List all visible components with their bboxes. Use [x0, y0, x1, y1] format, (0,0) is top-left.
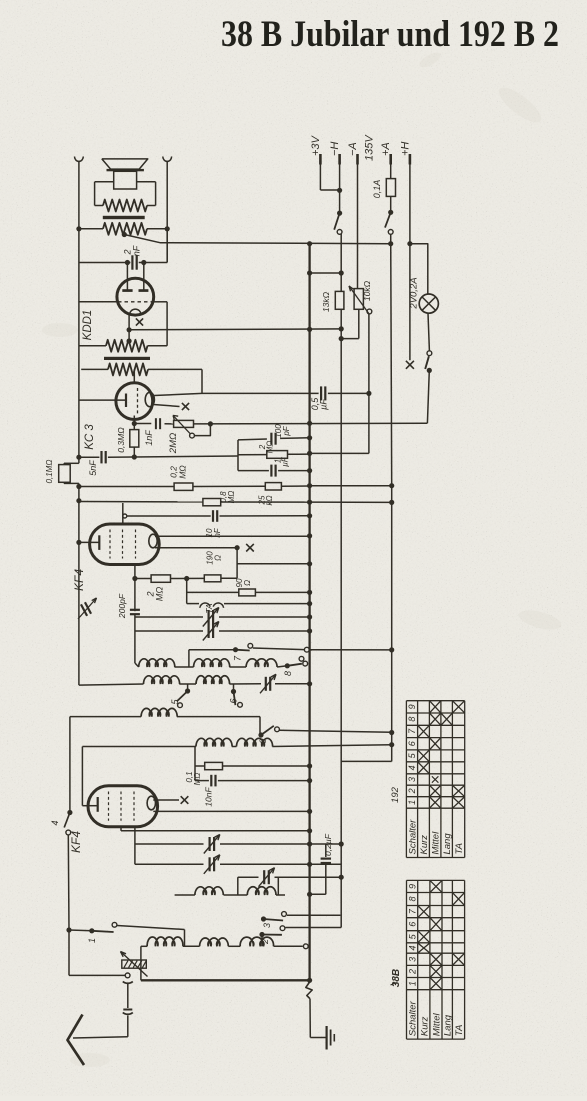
svg-text:Ω: Ω: [214, 555, 223, 561]
svg-text:8: 8: [283, 671, 293, 676]
svg-text:nF: nF: [132, 245, 142, 256]
svg-text:0,2µF: 0,2µF: [323, 833, 333, 856]
svg-text:9: 9: [407, 704, 417, 709]
svg-text:+3V: +3V: [310, 134, 322, 156]
svg-text:8: 8: [407, 717, 417, 722]
svg-text:MΩ: MΩ: [227, 491, 236, 504]
svg-text:MΩ: MΩ: [266, 441, 275, 454]
svg-text:Mittel: Mittel: [431, 1013, 442, 1037]
svg-text:4: 4: [407, 945, 417, 950]
svg-text:kΩ: kΩ: [265, 495, 274, 505]
svg-text:1nF: 1nF: [144, 430, 154, 446]
svg-text:−H: −H: [329, 142, 341, 156]
svg-text:Ω: Ω: [243, 580, 252, 586]
svg-text:13kΩ: 13kΩ: [321, 291, 331, 312]
svg-text:Lang: Lang: [443, 1014, 454, 1036]
svg-text:pF: pF: [282, 425, 291, 436]
svg-text:135V: 135V: [364, 134, 376, 161]
svg-text:10kΩ: 10kΩ: [362, 280, 372, 301]
svg-text:6: 6: [229, 698, 239, 703]
svg-text:2V0,2A: 2V0,2A: [409, 277, 420, 309]
svg-text:8: 8: [407, 896, 417, 901]
svg-text:0,1MΩ: 0,1MΩ: [45, 460, 54, 484]
svg-text:TA: TA: [454, 843, 465, 854]
svg-text:Schalter: Schalter: [408, 819, 419, 855]
svg-text:2: 2: [407, 969, 417, 975]
svg-text:Kurz: Kurz: [419, 835, 430, 855]
svg-text:MΩ: MΩ: [193, 773, 202, 786]
svg-text:10nF: 10nF: [204, 787, 214, 807]
svg-text:KDD1: KDD1: [82, 310, 94, 341]
svg-text:200pF: 200pF: [117, 593, 127, 619]
svg-text:3: 3: [262, 923, 272, 928]
svg-text:Schalter: Schalter: [408, 1000, 419, 1036]
svg-text:9: 9: [407, 884, 417, 889]
svg-text:0,1A: 0,1A: [372, 180, 382, 199]
svg-text:TA: TA: [454, 1025, 465, 1036]
svg-text:Mittel: Mittel: [431, 831, 442, 855]
svg-text:6: 6: [407, 741, 417, 746]
svg-text:0,3MΩ: 0,3MΩ: [116, 427, 126, 453]
svg-text:Lang: Lang: [442, 833, 453, 855]
svg-text:1: 1: [407, 981, 417, 986]
svg-text:4: 4: [407, 765, 417, 770]
svg-text:MΩ: MΩ: [178, 465, 188, 479]
svg-text:3: 3: [407, 777, 417, 782]
svg-text:KC 3: KC 3: [84, 424, 96, 450]
svg-text:KF4: KF4: [72, 569, 86, 591]
svg-text:+H: +H: [399, 142, 411, 156]
svg-text:+A: +A: [380, 142, 392, 156]
svg-text:2MΩ: 2MΩ: [168, 433, 179, 454]
svg-text:−A: −A: [347, 142, 359, 156]
svg-text:2: 2: [407, 788, 417, 794]
svg-text:Kurz: Kurz: [419, 1016, 430, 1036]
svg-text:3: 3: [407, 957, 417, 962]
svg-text:6: 6: [407, 922, 417, 927]
svg-text:5nF: 5nF: [88, 460, 98, 476]
svg-text:µF: µF: [281, 456, 290, 467]
svg-text:38 B Jubilar und 192 B 2: 38 B Jubilar und 192 B 2: [221, 14, 559, 55]
svg-text:1: 1: [87, 938, 97, 943]
svg-text:1: 1: [407, 800, 417, 805]
svg-text:4: 4: [50, 820, 60, 825]
svg-text:µF: µF: [319, 399, 329, 410]
svg-text:KF4: KF4: [69, 831, 83, 853]
svg-text:192: 192: [390, 786, 401, 803]
svg-text:MΩ: MΩ: [155, 587, 165, 601]
